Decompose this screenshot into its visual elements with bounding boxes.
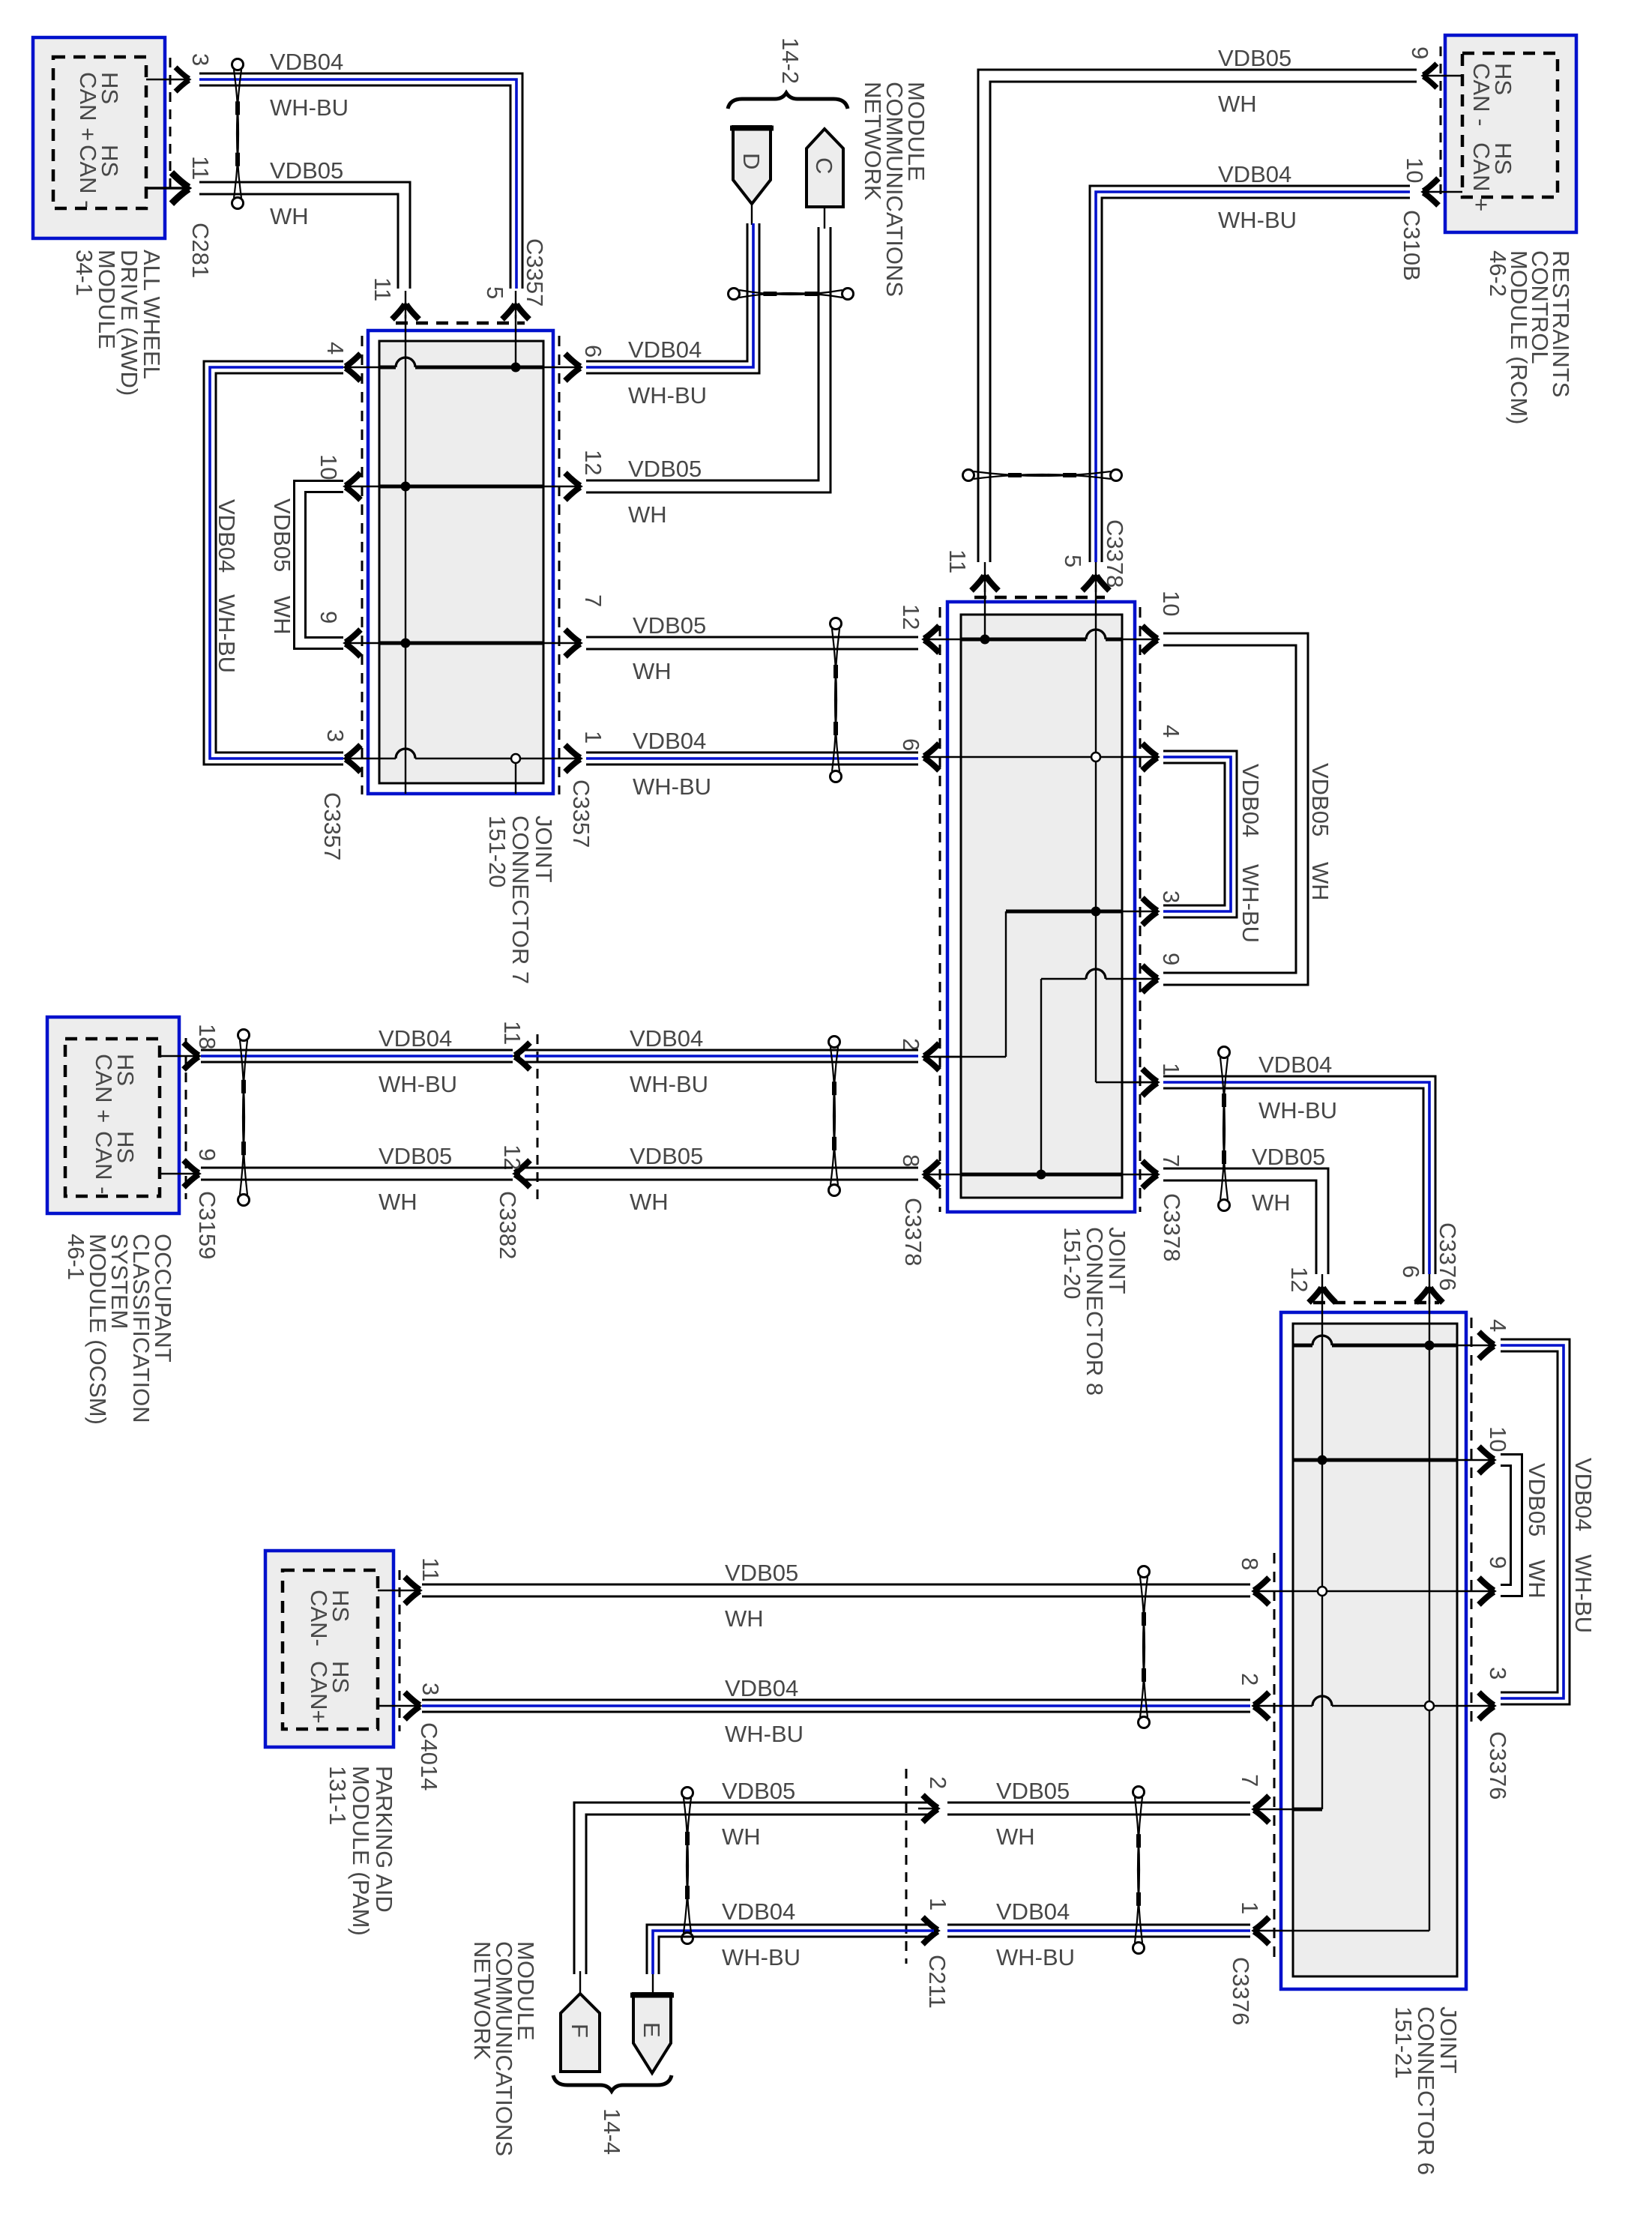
wire VDB04 WH-BU RCM pin10 to JC8 pin5: [1102, 198, 1410, 562]
svg-text:9: 9: [1158, 953, 1184, 965]
wire jumper VDB05 WH JC8 pin10 to pin9: [1163, 633, 1308, 985]
flag D tail wire: [751, 204, 753, 225]
svg-text:VDB05: VDB05: [633, 612, 706, 639]
svg-text:11: 11: [370, 277, 396, 301]
twisted pair symbol E F: [682, 1788, 693, 1799]
svg-text:C3382: C3382: [495, 1191, 521, 1259]
JC8 junction dot row8-7: [1037, 1170, 1046, 1180]
JC6 junction dot row10: [1318, 1456, 1327, 1465]
svg-text:C281: C281: [187, 223, 214, 278]
svg-text:VDB04: VDB04: [630, 1025, 703, 1052]
svg-text:CONNECTOR 7: CONNECTOR 7: [507, 815, 534, 984]
svg-text:C3378: C3378: [900, 1198, 926, 1266]
JC6 internal vertical from pin 6: [1429, 1297, 1430, 1931]
svg-text:WH-BU: WH-BU: [1218, 207, 1297, 233]
connector C3382 dashed line: [537, 1034, 539, 1207]
JC7 right pin 6 stub: [543, 367, 579, 368]
svg-text:CAN -: CAN -: [75, 145, 101, 208]
svg-text:VDB04: VDB04: [722, 1898, 795, 1925]
svg-text:C3159: C3159: [194, 1191, 220, 1259]
svg-text:WH-BU: WH-BU: [633, 773, 711, 800]
svg-text:VDB05: VDB05: [1218, 45, 1291, 71]
svg-text:VDB04: VDB04: [1238, 764, 1264, 837]
JC6 right pin 9 stub: [1457, 1590, 1493, 1592]
wire VDB04 WH-BU C211 pin1 to JC6 pin1: [947, 1924, 1250, 1926]
joint connector 8 box: [947, 602, 1135, 1212]
svg-text:151-21: 151-21: [1390, 2006, 1417, 2079]
JC6 right pin 4 stub: [1457, 1345, 1493, 1346]
svg-text:10: 10: [316, 454, 342, 480]
twisted pair symbol JC7-JC8: [830, 618, 842, 630]
svg-text:VDB05: VDB05: [269, 498, 295, 572]
JC7 right pin 12 stub: [543, 486, 579, 487]
connector C3357 dashed line left of JC7: [361, 336, 364, 794]
brace 14-4: [553, 2075, 672, 2091]
wire VDB05 WH RCM pin9 to JC8 pin11: [990, 82, 1417, 562]
flag C tail wire: [824, 207, 825, 229]
twisted pair symbol PAM-JC6: [1139, 1566, 1150, 1578]
svg-text:WH: WH: [1307, 862, 1333, 901]
JC6 internal bus row pin 10: [1293, 1459, 1457, 1462]
svg-text:WH-BU: WH-BU: [630, 1071, 708, 1097]
AWD pin 3 stub: [146, 79, 188, 80]
JC8 internal vertical pin9 to row 8-7: [1040, 979, 1042, 1174]
wire VDB05 WH AWD pin11 to JC7 pin11: [199, 182, 410, 289]
JC7 junction circle row3-1: [511, 754, 520, 763]
JC8 right pin 10 stub: [1122, 639, 1157, 640]
JC7 internal bus row pins 9-7: [379, 642, 543, 645]
JC7 internal vertical from pin 11: [405, 315, 406, 794]
JC8 junction dot row3: [1091, 907, 1101, 917]
JC6 junction dot row4: [1425, 1341, 1435, 1351]
wire VDB05 WH C3382 to JC8 pin8: [525, 1167, 918, 1169]
svg-text:WH-BU: WH-BU: [270, 94, 349, 121]
JC6 internal bus row pin 4: [1293, 1344, 1312, 1348]
svg-text:2: 2: [1237, 1673, 1263, 1686]
JC8 right pin 9 stub: [1122, 978, 1157, 980]
svg-text:VDB05: VDB05: [725, 1560, 798, 1586]
JC7 left pin 3 stub: [346, 758, 379, 759]
wire VDB05 WH JC8 pin7 to JC6 pin12: [1163, 1168, 1328, 1274]
svg-text:12: 12: [580, 450, 606, 475]
twisted pair symbol OCSM: [238, 1030, 250, 1041]
twisted pair symbol JC8 right: [1219, 1047, 1230, 1058]
JC6 junction circle row2-3: [1425, 1701, 1434, 1710]
svg-text:WH-BU: WH-BU: [1570, 1554, 1597, 1633]
svg-text:WH: WH: [996, 1824, 1035, 1850]
svg-text:3: 3: [187, 53, 214, 66]
RCM pin 10 stub: [1424, 191, 1462, 193]
svg-text:NETWORK: NETWORK: [860, 82, 886, 201]
svg-text:10: 10: [1158, 591, 1184, 616]
wire VDB04 WH-BU JC8 pin1 to JC6 pin6: [1163, 1076, 1435, 1274]
svg-text:131-1: 131-1: [325, 1766, 351, 1825]
svg-text:C310B: C310B: [1399, 210, 1425, 281]
C211 pin 1 arrow: [918, 1930, 937, 1931]
wire VDB04 WH-BU flag E to C211 pin1: [647, 1925, 934, 1974]
wire VDB04 WH-BU JC7 pin1 to JC8 pin6: [586, 752, 918, 754]
svg-text:8: 8: [898, 1154, 924, 1167]
svg-text:7: 7: [1158, 1154, 1184, 1167]
wire jumper VDB05 WH JC6 pin10 to pin9: [1501, 1455, 1522, 1596]
svg-text:12: 12: [499, 1144, 525, 1170]
connector C3378 dashed line left of JC8: [939, 607, 941, 1212]
flag F (module communications network): [561, 1994, 600, 2072]
svg-text:3: 3: [1485, 1667, 1511, 1680]
connector C3376 dashed line left of JC6: [1273, 1553, 1276, 1964]
svg-text:14-2: 14-2: [777, 37, 804, 84]
wire VDB05 WH JC7 pin12 to flag C: [586, 227, 819, 480]
svg-text:MODULE (PAM): MODULE (PAM): [348, 1766, 374, 1936]
JC6 internal row pins 2-3: [1293, 1705, 1312, 1707]
svg-text:VDB05: VDB05: [628, 456, 702, 482]
svg-text:WH: WH: [633, 658, 672, 684]
svg-text:10: 10: [1402, 157, 1428, 183]
svg-text:6: 6: [898, 738, 924, 751]
module PAM dashed inner boundary: [283, 1570, 378, 1729]
svg-text:D: D: [738, 153, 765, 169]
svg-text:C: C: [811, 157, 837, 174]
svg-text:WH: WH: [628, 501, 667, 528]
JC8 right pin 3 stub: [1122, 911, 1157, 912]
twisted pair symbol flags D C: [729, 289, 740, 300]
JC6 internal row pin 1: [1293, 1930, 1429, 1931]
JC7 left pin 4 stub: [346, 367, 379, 368]
svg-text:C3357: C3357: [522, 238, 548, 307]
svg-text:14-4: 14-4: [599, 2108, 625, 2155]
svg-text:2: 2: [925, 1776, 951, 1789]
JC8 internal bus row pins 8-7: [961, 1173, 1122, 1177]
twisted pair symbol C3382-JC8: [829, 1037, 840, 1048]
JC6 left pin 1 stub: [1255, 1930, 1293, 1931]
wire VDB04 WH-BU OCSM pin18 to C3382 pin11: [201, 1049, 513, 1052]
connector C3357 dashed line right of JC7: [558, 336, 561, 794]
wire jumper VDB04 WH-BU JC7 pin4 to pin3: [216, 373, 343, 752]
connector C4014 dashed line: [399, 1570, 401, 1731]
svg-text:7: 7: [1237, 1774, 1263, 1787]
OCSM pin 9 stub: [160, 1173, 198, 1174]
svg-text:VDB04: VDB04: [214, 499, 240, 573]
JC7 internal bus row pins 3-1: [379, 758, 396, 759]
svg-text:WH-BU: WH-BU: [722, 1944, 801, 1970]
wire VDB04 WH-BU C3382 to JC8 pin2: [525, 1049, 918, 1052]
JC7 internal vertical from pin 5: [515, 315, 516, 367]
JC8 internal vertical from pin 5: [1095, 585, 1097, 1082]
svg-text:151-20: 151-20: [484, 815, 510, 888]
connector C281 dashed line: [169, 58, 172, 190]
JC8 left pin 6 stub: [925, 756, 961, 758]
flag E (module communications network): [633, 1994, 671, 2073]
twisted pair symbol RCM: [963, 470, 974, 481]
svg-text:WH-BU: WH-BU: [1258, 1097, 1337, 1123]
svg-text:11: 11: [944, 549, 971, 573]
wire jumper VDB04 WH-BU JC8 pin4 to pin3: [1163, 751, 1237, 917]
JC7 junction dot pin11/row10-12: [401, 482, 411, 492]
JC8 junction dot pin11/row12-10: [980, 635, 990, 645]
svg-text:5: 5: [1060, 555, 1086, 567]
svg-text:4: 4: [322, 342, 349, 355]
JC8 top pin 11 stub: [984, 562, 986, 592]
svg-text:WH: WH: [269, 596, 295, 635]
module OCSM dashed inner boundary: [65, 1039, 160, 1196]
JC8 right pin 1 stub: [1122, 1082, 1157, 1083]
JC7 right pin 1 stub: [543, 758, 579, 759]
JC8 top pin 5 stub: [1095, 562, 1097, 592]
C3382 pin 12 arrow: [513, 1160, 530, 1187]
svg-text:C3376: C3376: [1435, 1222, 1461, 1291]
joint connector 7 box: [368, 331, 553, 794]
module ALL WHEEL DRIVE (AWD) box: [33, 37, 165, 238]
PAM pin 3 stub: [378, 1705, 419, 1707]
twisted pair symbol AWD: [232, 59, 244, 70]
svg-text:C3378: C3378: [1102, 519, 1128, 588]
RCM pin 9 stub: [1424, 75, 1462, 76]
svg-text:WH-BU: WH-BU: [996, 1944, 1075, 1970]
module PARKING AID MODULE (PAM) box: [265, 1551, 394, 1747]
svg-text:NETWORK: NETWORK: [469, 1941, 495, 2060]
JC8 left pin 12 stub: [925, 639, 961, 640]
JC6 top pin 6 stub: [1429, 1274, 1430, 1304]
svg-text:WH-BU: WH-BU: [379, 1071, 457, 1097]
svg-text:11: 11: [499, 1021, 525, 1045]
JC7 left pin 10 stub: [346, 486, 379, 487]
svg-text:9: 9: [1485, 1556, 1511, 1569]
svg-text:WH: WH: [630, 1189, 669, 1215]
svg-text:WH: WH: [1524, 1560, 1550, 1599]
JC8 internal bus row pins 12-10: [961, 638, 1086, 642]
svg-text:CAN +: CAN +: [1468, 142, 1495, 211]
AWD pin 11 stub: [146, 187, 188, 190]
wire VDB05 WH OCSM pin9 to C3382 pin12: [201, 1167, 513, 1169]
flag D (module communications network): [733, 127, 771, 204]
svg-text:WH-BU: WH-BU: [725, 1721, 804, 1747]
JC8 right pin 4 stub: [1122, 756, 1157, 758]
svg-text:7: 7: [580, 594, 606, 607]
svg-text:4: 4: [1158, 725, 1184, 738]
svg-text:WH: WH: [379, 1189, 417, 1215]
svg-text:CAN -: CAN -: [1468, 63, 1495, 126]
JC7 top pin 11 stub: [405, 291, 406, 319]
svg-text:E: E: [639, 2022, 665, 2038]
svg-text:C211: C211: [924, 1955, 950, 2009]
flag F tail wire: [579, 1971, 581, 1994]
svg-text:VDB04: VDB04: [628, 337, 702, 363]
JC7 internal bus row pins 10-12: [379, 485, 543, 489]
module RESTRAINTS CONTROL MODULE (RCM) box: [1445, 35, 1576, 232]
JC8 internal bus row pins 6-4: [961, 756, 1122, 758]
wire VDB04 WH-BU JC7 pin6 to flag D: [586, 223, 747, 361]
JC7 left pin 9 stub: [346, 642, 379, 644]
svg-text:F: F: [567, 2024, 593, 2038]
wire jumper VDB04 WH-BU JC6 pin4 to pin3: [1501, 1339, 1570, 1704]
svg-text:WH: WH: [1252, 1189, 1291, 1216]
svg-text:VDB05: VDB05: [996, 1778, 1070, 1804]
svg-text:1: 1: [580, 731, 606, 743]
svg-text:11: 11: [187, 156, 214, 180]
svg-text:18: 18: [194, 1024, 220, 1049]
wire VDB04 WH-BU AWD pin3 to JC7 pin5: [199, 73, 522, 289]
svg-text:CAN -: CAN -: [91, 1131, 117, 1194]
JC7 internal stub below pins 3-1 row: [515, 758, 516, 794]
JC6 left pin 2 stub: [1255, 1705, 1293, 1707]
svg-text:C4014: C4014: [416, 1722, 442, 1791]
svg-text:6: 6: [580, 345, 606, 358]
wire VDB05 WH JC7 pin7 to JC8 pin12: [586, 636, 918, 639]
svg-text:9: 9: [1407, 46, 1433, 59]
svg-text:CAN+: CAN+: [306, 1661, 332, 1724]
JC8 junction circle row6-4: [1091, 752, 1100, 761]
connector C3159 dashed line: [185, 1038, 187, 1199]
module OCCUPANT CLASSIFICATION SYSTEM MODULE (OCSM) box: [47, 1017, 179, 1213]
svg-text:VDB04: VDB04: [379, 1025, 452, 1052]
JC6 right pin 10 stub: [1457, 1459, 1493, 1461]
svg-text:CAN-: CAN-: [306, 1590, 332, 1647]
svg-text:9: 9: [194, 1148, 220, 1161]
svg-text:C3376: C3376: [1228, 1957, 1254, 2025]
JC7 top pin 5 stub: [515, 291, 516, 319]
svg-text:WH-BU: WH-BU: [1238, 864, 1264, 943]
JC8 right pin 7 stub: [1122, 1174, 1157, 1175]
svg-text:VDB05: VDB05: [1307, 763, 1333, 836]
OCSM pin 18 stub: [160, 1055, 198, 1057]
JC6 internal row pins 8-9: [1293, 1590, 1457, 1592]
C3382 pin 11 arrow: [513, 1043, 530, 1070]
svg-text:VDB04: VDB04: [1218, 161, 1291, 187]
JC6 top pin 12 stub: [1321, 1274, 1323, 1304]
svg-text:VDB05: VDB05: [1252, 1144, 1325, 1170]
svg-text:WH-BU: WH-BU: [628, 382, 707, 408]
svg-text:VDB05: VDB05: [270, 157, 343, 184]
svg-text:4: 4: [1485, 1319, 1511, 1332]
svg-text:10: 10: [1485, 1426, 1511, 1452]
svg-text:WH: WH: [270, 203, 309, 229]
flag E tail wire: [652, 1971, 654, 1994]
svg-text:1: 1: [1158, 1063, 1184, 1076]
module AWD dashed inner boundary: [53, 57, 146, 208]
JC8 internal bus row pin 3: [1006, 910, 1122, 914]
svg-text:C3357: C3357: [568, 779, 594, 848]
JC8 left pin 8 stub: [925, 1174, 961, 1175]
module RCM dashed inner boundary: [1462, 53, 1558, 197]
svg-text:VDB05: VDB05: [1524, 1463, 1550, 1536]
svg-text:5: 5: [482, 286, 508, 299]
svg-text:VDB04: VDB04: [1258, 1052, 1332, 1078]
JC7 right pin 7 stub: [543, 642, 579, 644]
svg-text:3: 3: [322, 729, 349, 742]
svg-text:46-1: 46-1: [63, 1234, 89, 1280]
svg-text:VDB04: VDB04: [1570, 1458, 1597, 1531]
svg-text:WH-BU: WH-BU: [214, 594, 240, 673]
JC6 internal row pin 7: [1293, 1808, 1322, 1812]
JC8 internal row pin 9: [1041, 978, 1086, 980]
connector C3378 dashed line top of JC8: [974, 596, 1105, 600]
svg-text:JOINT: JOINT: [531, 815, 557, 883]
svg-text:VDB05: VDB05: [379, 1143, 452, 1169]
svg-text:11: 11: [417, 1557, 444, 1581]
svg-text:VDB05: VDB05: [722, 1778, 795, 1804]
JC8 internal vertical from pin 11: [984, 585, 986, 639]
wire jumper VDB05 WH JC7 pin10 to pin9: [306, 492, 344, 638]
svg-text:VDB05: VDB05: [630, 1143, 703, 1169]
JC6 junction circle row8-9: [1318, 1587, 1327, 1596]
svg-text:8: 8: [1237, 1557, 1263, 1570]
svg-text:CAN +: CAN +: [91, 1054, 117, 1123]
connector C3376 dashed line top of JC6: [1313, 1301, 1439, 1305]
JC6 left pin 8 stub: [1255, 1590, 1293, 1592]
svg-text:6: 6: [1398, 1265, 1424, 1278]
svg-text:34-1: 34-1: [71, 250, 97, 296]
svg-text:12: 12: [1286, 1267, 1312, 1292]
wire VDB05 WH flag F to C211 pin2: [574, 1803, 934, 1974]
JC8 internal vertical pin2-pin3: [1005, 911, 1007, 1057]
svg-text:VDB04: VDB04: [725, 1675, 798, 1701]
svg-text:3: 3: [1158, 890, 1184, 903]
wire VDB04 WH-BU PAM pin3 to JC6 pin2: [422, 1699, 1250, 1701]
JC8 left pin 2 stub: [925, 1056, 961, 1058]
svg-text:1: 1: [1237, 1901, 1263, 1914]
JC7 junction dot pin11/row9-7: [401, 639, 411, 648]
svg-text:C3378: C3378: [1159, 1193, 1185, 1261]
svg-text:WH: WH: [1218, 91, 1257, 117]
svg-text:VDB04: VDB04: [996, 1898, 1070, 1925]
brace 14-2: [728, 93, 848, 109]
connector C3376 dashed line right of JC6: [1471, 1318, 1473, 1724]
wire VDB05 WH C211 pin2 to JC6 pin7: [947, 1802, 1250, 1804]
svg-text:9: 9: [316, 611, 342, 624]
svg-text:C3357: C3357: [319, 792, 346, 860]
svg-text:PARKING AID: PARKING AID: [371, 1766, 397, 1913]
connector C211 dashed line: [905, 1769, 908, 1964]
svg-text:WH: WH: [722, 1824, 761, 1850]
svg-text:VDB04: VDB04: [633, 728, 706, 754]
flag C (module communications network): [807, 129, 843, 207]
wire VDB05 WH PAM pin11 to JC6 pin8: [422, 1584, 1250, 1586]
JC6 right pin 3 stub: [1457, 1705, 1493, 1707]
svg-text:1: 1: [925, 1898, 951, 1910]
svg-text:46-2: 46-2: [1485, 250, 1511, 297]
svg-text:3: 3: [417, 1683, 444, 1695]
twisted pair symbol C211-JC6: [1133, 1787, 1145, 1798]
connector C310B dashed line: [1440, 46, 1442, 196]
svg-text:CAN +: CAN +: [75, 72, 101, 141]
JC8 internal row pin 1: [1096, 1082, 1154, 1083]
PAM pin 11 stub: [378, 1590, 419, 1591]
JC8 internal row pin 2: [934, 1056, 1006, 1058]
JC6 internal vertical from pin 12: [1321, 1297, 1323, 1809]
svg-text:12: 12: [898, 604, 924, 630]
JC6 left pin 7 stub: [1255, 1809, 1293, 1810]
joint connector 6 box: [1281, 1312, 1466, 1989]
JC7 internal bus row pins 4-6: [379, 366, 396, 369]
svg-text:151-20: 151-20: [1059, 1227, 1085, 1300]
connector C3378 dashed line right of JC8: [1139, 607, 1142, 1212]
connector C3357 dashed line top of JC7: [396, 322, 525, 325]
JC7 junction dot pin5/row4-6: [511, 363, 521, 372]
svg-text:WH: WH: [725, 1605, 764, 1632]
svg-text:C3376: C3376: [1485, 1731, 1511, 1800]
svg-text:VDB04: VDB04: [270, 49, 343, 75]
C211 pin 2 arrow: [918, 1808, 937, 1809]
